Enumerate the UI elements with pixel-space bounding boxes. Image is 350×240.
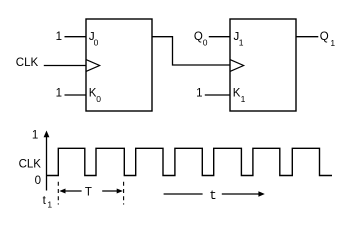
svg-text:1: 1: [196, 88, 202, 100]
dimension arrow right (t): [222, 193, 261, 195]
svg-text:1: 1: [47, 200, 52, 210]
flip-flop U0 box: [86, 19, 152, 111]
svg-text:T: T: [85, 187, 92, 199]
svg-text:1: 1: [241, 94, 246, 104]
flip-flop U1 box: [230, 19, 296, 111]
wire K1 input: [205, 94, 230, 96]
wire Q1 output: [296, 36, 318, 38]
svg-text:CLK: CLK: [16, 57, 39, 69]
svg-text:Q: Q: [194, 31, 203, 43]
wire CLK into U0: [44, 65, 86, 67]
clock triangle U0: [86, 60, 100, 72]
wire K0 input: [65, 94, 87, 96]
dimension line left (t): [164, 193, 203, 195]
wire J0 input: [65, 36, 87, 38]
svg-text:K: K: [233, 88, 241, 100]
svg-text:Q: Q: [320, 31, 329, 43]
wire Q0 output of U0 to clock of U1: [152, 37, 230, 65]
CLK waveform: [47, 148, 332, 175]
wire Q0 label to J1: [209, 36, 230, 38]
dashed marker at end of period T: [123, 182, 125, 205]
svg-text:0: 0: [203, 38, 208, 48]
svg-text:1: 1: [56, 88, 62, 100]
dimension arrow left (T): [63, 190, 82, 192]
svg-text:0: 0: [94, 38, 99, 48]
timing axis with arrow: [46, 134, 48, 191]
svg-text:1: 1: [330, 38, 335, 48]
svg-text:0: 0: [96, 94, 101, 104]
dashed marker at t1 (first rising edge): [57, 182, 59, 205]
clock triangle U1: [230, 60, 244, 72]
svg-text:CLK: CLK: [19, 159, 42, 171]
svg-text:t: t: [209, 189, 217, 203]
dimension arrow right (T): [102, 190, 119, 192]
svg-text:1: 1: [239, 38, 244, 48]
svg-text:1: 1: [32, 129, 38, 141]
svg-text:0: 0: [35, 175, 41, 187]
svg-text:1: 1: [56, 31, 62, 43]
